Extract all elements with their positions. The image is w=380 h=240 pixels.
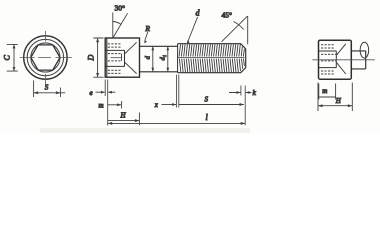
end view: hex socket bbox=[31, 45, 60, 70]
svg-text:D: D bbox=[86, 54, 95, 61]
dimension x (thread runout) bbox=[162, 103, 177, 106]
right view dimension H bbox=[318, 83, 352, 112]
shank diameter dim d1 (vertical) bbox=[166, 46, 169, 72]
head section diagonal upper bbox=[125, 42, 137, 53]
tip extension lines bbox=[241, 86, 245, 126]
extension lines below head bbox=[105, 80, 108, 126]
thread hatch upper band bbox=[179, 44, 244, 56]
dimension l (total length) bbox=[108, 122, 246, 125]
thread outline bbox=[178, 44, 246, 73]
svg-text:30°: 30° bbox=[115, 4, 126, 13]
svg-text:S: S bbox=[45, 84, 49, 92]
socket top line bbox=[106, 49, 125, 51]
right view: head outline bbox=[319, 40, 352, 79]
right view: socket bottom line bbox=[319, 67, 336, 69]
thread diameter leader d bbox=[188, 17, 198, 43]
svg-text:d: d bbox=[144, 55, 151, 59]
shank bottom line bbox=[140, 71, 178, 73]
right view: stub shank bbox=[351, 51, 365, 69]
dimension S (socket across corners) bbox=[34, 81, 66, 98]
svg-text:e: e bbox=[90, 89, 93, 97]
end view: outer circle (head diameter) bbox=[24, 36, 67, 79]
dimension C (socket across flats) bbox=[7, 44, 18, 71]
socket bottom wall bbox=[124, 50, 126, 66]
svg-text:45°: 45° bbox=[222, 11, 233, 20]
svg-text:d: d bbox=[196, 9, 201, 18]
thread start boundary bbox=[177, 44, 179, 73]
dimension H (head height, side view) bbox=[108, 113, 140, 126]
svg-text:H: H bbox=[335, 97, 342, 105]
svg-text:l: l bbox=[206, 113, 209, 122]
end view: middle circle bbox=[27, 39, 63, 75]
thread hatch lower band bbox=[179, 59, 244, 73]
svg-text:d₁: d₁ bbox=[159, 55, 166, 61]
right view: knurl dashes upper bbox=[321, 45, 334, 48]
thread start extension lines bbox=[177, 75, 179, 108]
head left face (thick) bbox=[106, 38, 108, 76]
svg-text:R: R bbox=[144, 24, 150, 33]
dimension S (thread length) bbox=[179, 103, 244, 106]
svg-text:S: S bbox=[205, 96, 209, 104]
end view: horizontal centerline bbox=[20, 57, 72, 59]
svg-text:C: C bbox=[3, 54, 12, 60]
socket inner (hex back) dashes bbox=[108, 54, 122, 61]
right view: socket bottom wall bbox=[335, 51, 337, 68]
right view: end ellipse bbox=[360, 42, 369, 58]
right view: section diagonal lower bbox=[337, 63, 346, 74]
svg-text:H: H bbox=[120, 112, 127, 120]
dimension e (chamfer) bbox=[96, 91, 116, 94]
end view: vertical centerline bbox=[44, 31, 46, 87]
head section diagonal lower bbox=[125, 63, 137, 74]
thread root/center line bbox=[178, 57, 245, 59]
right view dimension m bbox=[319, 84, 336, 100]
end view: socket chamfer circle bbox=[31, 43, 60, 72]
right view: section diagonal upper bbox=[337, 44, 346, 55]
shank diameter dim d (vertical, in shank) bbox=[151, 46, 154, 72]
right view: centerline bbox=[313, 59, 375, 61]
svg-text:m: m bbox=[99, 101, 104, 109]
fillet radius R leader bbox=[145, 32, 148, 41]
dimension k (tip chamfer) bbox=[229, 91, 252, 94]
right view: socket inner dashes bbox=[321, 54, 336, 61]
right view: knurl dashes lower bbox=[321, 71, 334, 74]
scan noise bottom strip bbox=[40, 128, 250, 133]
30 degree chamfer annotation bbox=[113, 13, 128, 39]
shank top line bbox=[140, 45, 178, 47]
45 degree tip chamfer annotation bbox=[222, 16, 248, 44]
socket bottom line bbox=[106, 65, 125, 67]
side view: head outline bbox=[105, 38, 139, 77]
head interior: knurl/hatch dashes lower bbox=[108, 70, 121, 73]
dimension D (head diameter) bbox=[93, 38, 103, 77]
head interior: knurl/hatch dashes upper bbox=[108, 44, 121, 47]
right view: socket top line bbox=[319, 50, 336, 52]
svg-text:x: x bbox=[154, 101, 159, 109]
head center mark bbox=[111, 57, 122, 59]
svg-text:m: m bbox=[322, 87, 327, 95]
dimension m (key engagement) bbox=[108, 101, 122, 109]
svg-text:k: k bbox=[253, 88, 257, 97]
